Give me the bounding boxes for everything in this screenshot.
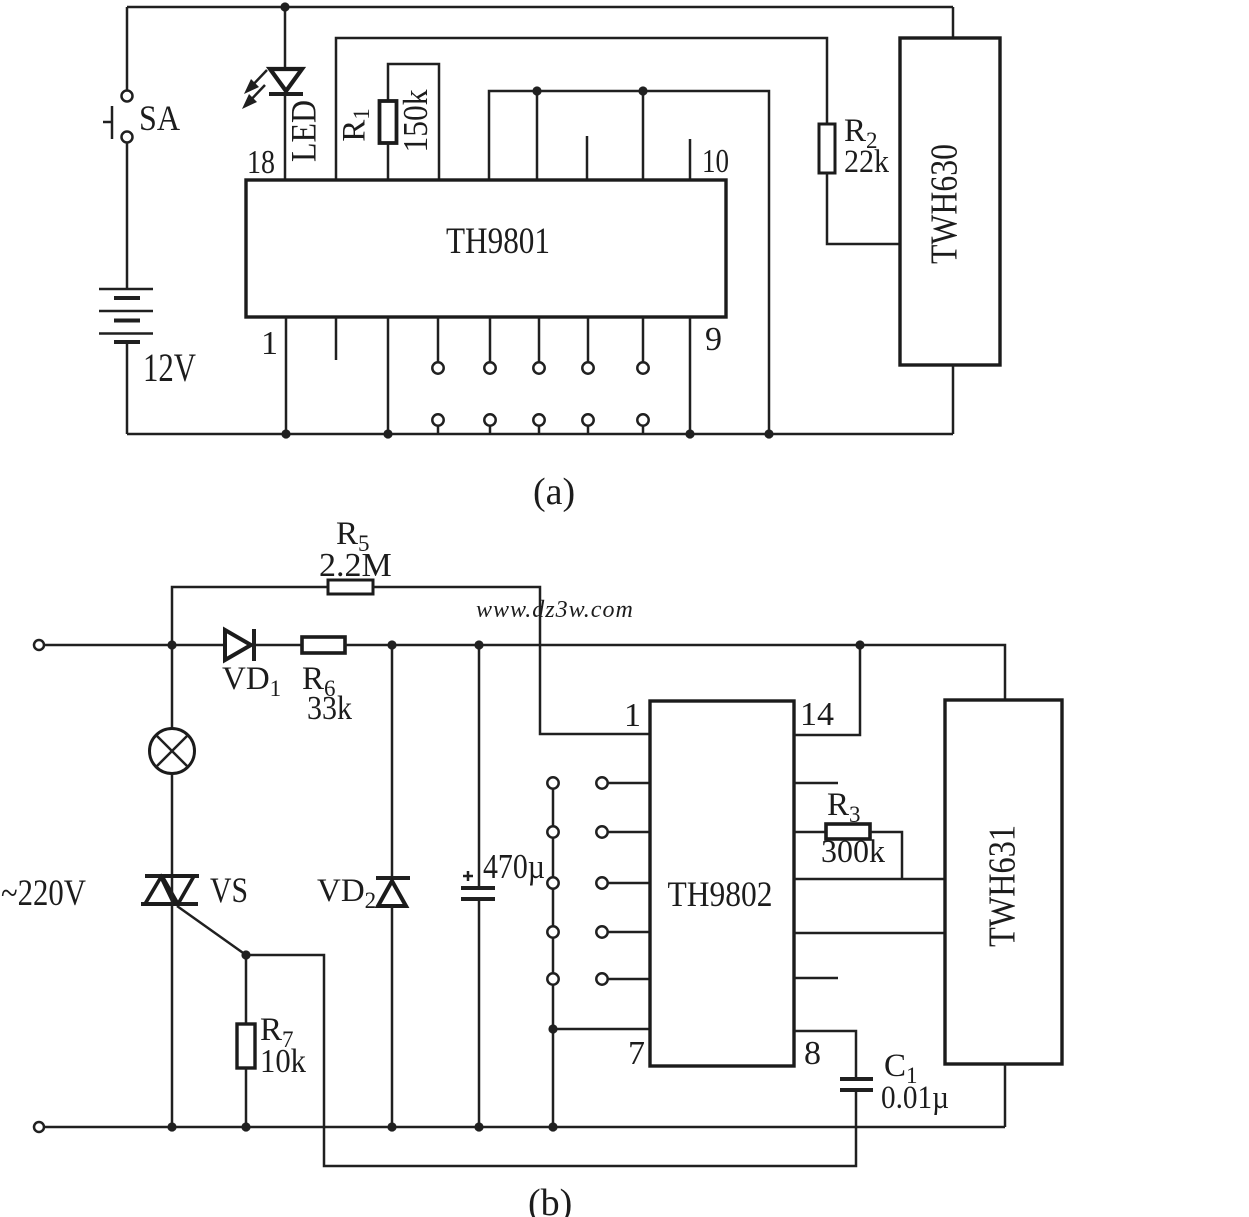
pin stub top 587 (586, 136, 589, 180)
svg-text:TH9802: TH9802 (668, 874, 773, 914)
resistor R7 (237, 1024, 255, 1068)
wire pin7 (553, 1028, 650, 1031)
svg-text:~220V: ~220V (1, 873, 86, 914)
node junction gate (241, 950, 250, 959)
svg-text:SA: SA (139, 98, 180, 138)
node junction triac rail (167, 1122, 176, 1131)
IC TWH631 (945, 700, 1062, 1064)
svg-text:TH9801: TH9801 (446, 221, 550, 262)
lamp (150, 729, 195, 774)
resistor R6 (302, 637, 345, 653)
wire top rail to LED (284, 7, 287, 68)
svg-text:150k: 150k (396, 89, 435, 152)
wire top rail right drop to TWH630 (952, 7, 955, 38)
node junction pin1 rail (281, 429, 290, 438)
capacitor C1 (840, 1079, 873, 1090)
wire cap branch top (478, 645, 481, 886)
svg-text:14: 14 (800, 696, 834, 733)
node junction 392 top (387, 640, 396, 649)
wire top rail (a) (127, 6, 953, 9)
wire pin to TWH631 b (794, 932, 945, 935)
resistor R5 (328, 580, 373, 594)
wire bottom rail (a) (127, 433, 953, 436)
wire VD1 to R6 (256, 644, 302, 647)
terminal input top (34, 640, 44, 650)
wire pin1 down (285, 317, 288, 434)
pin stub bottom 336 (335, 317, 338, 360)
wire bottom rail (b) (44, 1126, 1005, 1129)
node junction pin7 (548, 1024, 557, 1033)
node junction column rail (548, 1122, 557, 1131)
node junction pin9 rail (685, 429, 694, 438)
svg-text:VS: VS (210, 870, 248, 910)
wire gate to C1 return (246, 955, 856, 1166)
svg-text:12V: 12V (143, 345, 196, 390)
wire R2 to TWH630 (827, 173, 900, 244)
node junction 769 rail (764, 429, 773, 438)
wire cap bottom (478, 901, 481, 1127)
resistor R2 (819, 124, 835, 173)
wire AC top bus (345, 645, 1005, 700)
pin stub right 978 (794, 977, 838, 980)
IC TWH630 (900, 38, 1000, 365)
wire inner top net: pin to R2 (336, 38, 827, 180)
svg-text:300k: 300k (821, 834, 885, 870)
resistor R1 loop (380, 64, 440, 180)
wire input top (44, 644, 225, 647)
node junction 172 top (167, 640, 176, 649)
pin stub right 783 (794, 782, 838, 785)
wire pin riser 643 (642, 91, 645, 180)
svg-text:2.2M: 2.2M (319, 547, 392, 584)
wire triac gate (177, 906, 246, 955)
node junction 537 (532, 86, 541, 95)
node junction 643 (638, 86, 647, 95)
wire TWH630 bottom to rail (952, 365, 955, 434)
battery 12V (99, 289, 153, 342)
node junction 479 top (474, 640, 483, 649)
wire pin-group net top (489, 91, 769, 434)
wire R3 loop (870, 832, 902, 879)
wire triac to bottom rail (171, 904, 174, 1127)
svg-text:8: 8 (804, 1035, 821, 1072)
LED photodiode (242, 69, 303, 109)
svg-text:(b): (b) (528, 1182, 572, 1217)
resistor R3 (826, 824, 870, 839)
IC TH9802 (650, 701, 794, 1066)
wire LED to IC pin18 (284, 96, 287, 180)
wire SA to battery (126, 143, 129, 289)
svg-text:22k: 22k (844, 144, 889, 180)
node junction top rail LED (280, 2, 289, 11)
svg-text:18: 18 (247, 144, 275, 181)
pin terminals column 490 (484, 317, 495, 434)
wire pin to TWH631 a (794, 878, 945, 881)
pin terminals column 438 (432, 317, 443, 434)
wire R7 bottom (245, 1068, 248, 1127)
svg-text:7: 7 (628, 1035, 645, 1072)
wire pin 388 down (387, 317, 390, 434)
wire left column top rail to SA (126, 7, 129, 90)
wire lamp branch (171, 645, 174, 728)
IC TH9801 (246, 180, 726, 317)
terminal input bottom (34, 1122, 44, 1132)
wire pin8 to C1 (794, 1031, 856, 1077)
wire R7 top (245, 955, 248, 1024)
pin terminals column 643 (637, 317, 648, 434)
pin stub top pin10 (689, 139, 692, 180)
wire R5 branch riser (172, 587, 328, 645)
svg-text:1: 1 (261, 325, 278, 362)
node junction 860 top (855, 640, 864, 649)
svg-text:1: 1 (624, 697, 641, 734)
wire R5 to pin1 (373, 587, 650, 734)
svg-text:LED: LED (283, 100, 323, 162)
wire pin9 down (689, 317, 692, 434)
node junction cap rail (474, 1122, 483, 1131)
wire pin riser 537 (536, 91, 539, 180)
svg-text:www.dz3w.com: www.dz3w.com (476, 597, 634, 623)
pin terminals column 539 (533, 317, 544, 434)
diode VD1 (225, 629, 254, 661)
svg-text:9: 9 (705, 321, 722, 358)
node junction 388 rail (383, 429, 392, 438)
connector column left (547, 777, 558, 1127)
connector column right (596, 777, 650, 984)
wire VD2 bottom (391, 906, 394, 1127)
wire VD2 branch top (391, 645, 394, 878)
wire pin14 riser (794, 645, 860, 735)
switch SA (103, 91, 133, 143)
pin terminals column 588 (582, 317, 593, 434)
node junction R7 rail (241, 1122, 250, 1131)
diode VD2 (376, 878, 410, 906)
capacitor 470u (461, 871, 495, 899)
svg-text:470µ: 470µ (483, 847, 545, 886)
wire lamp to triac (171, 774, 174, 876)
svg-text:TWH630: TWH630 (924, 144, 966, 264)
svg-text:10: 10 (702, 143, 729, 180)
svg-text:TWH631: TWH631 (982, 825, 1024, 947)
node junction VD2 rail (387, 1122, 396, 1131)
svg-text:33k: 33k (307, 690, 352, 727)
wire TWH631 bottom (1004, 1064, 1007, 1127)
svg-text:(a): (a) (533, 471, 575, 513)
wire battery to bottom rail (126, 342, 129, 434)
svg-text:10k: 10k (260, 1043, 306, 1080)
triac VS (141, 876, 199, 904)
wire pin R3 (794, 831, 826, 834)
svg-text:0.01µ: 0.01µ (881, 1080, 949, 1116)
